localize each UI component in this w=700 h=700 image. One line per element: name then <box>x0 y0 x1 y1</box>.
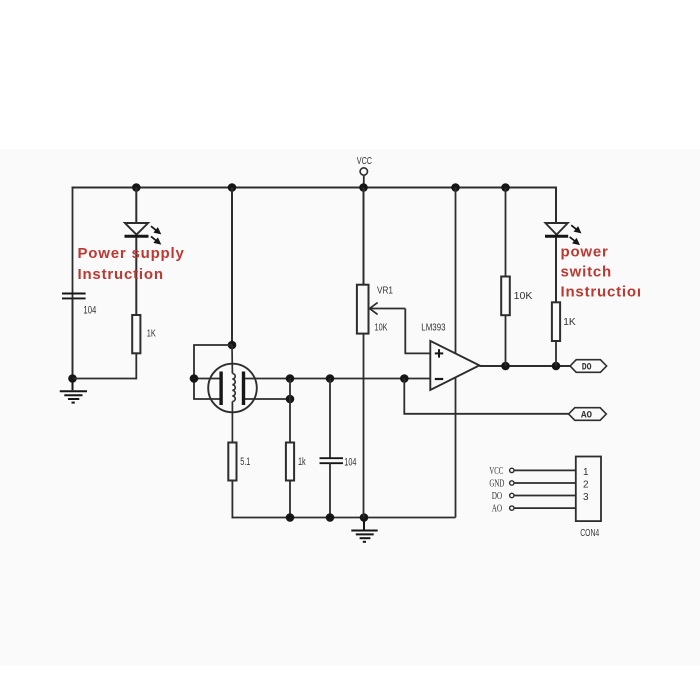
resistor 10K (pull-up) <box>501 277 510 316</box>
wire resistor to ground rail <box>135 353 137 379</box>
wire bottom ground rail <box>232 517 455 519</box>
gas sensor body circle <box>208 364 257 413</box>
svg-text:power: power <box>561 244 609 261</box>
wire VR1 bottom to ground rail <box>363 334 365 518</box>
pin VCC terminal circle <box>510 468 514 472</box>
capacitor C2 104 <box>320 458 344 463</box>
VR1 wiper arrow <box>370 303 406 315</box>
svg-text:AO: AO <box>492 504 503 515</box>
svg-text:1k: 1k <box>298 456 306 468</box>
junction ground node left <box>68 374 77 383</box>
port flag AO <box>569 408 607 422</box>
junction AO tap on minus line <box>400 374 409 383</box>
svg-text:104: 104 <box>83 305 96 317</box>
capacitor C1 104 <box>62 294 86 299</box>
wire sensor B-electrode lower tap <box>245 398 290 400</box>
svg-text:10K: 10K <box>375 323 388 334</box>
svg-text:AO: AO <box>581 410 592 422</box>
resistor 1K (LED D1 series) <box>132 315 140 353</box>
svg-text:switch: switch <box>561 264 612 281</box>
svg-text:1K: 1K <box>147 328 156 340</box>
sensor electrode plate right <box>242 372 245 406</box>
wire LED D2 cathode to resistor 1K <box>555 238 557 303</box>
pin GND terminal circle <box>510 481 514 485</box>
wire left vertical drop from bus <box>72 187 74 379</box>
wire capacitor C1 lower lead <box>72 298 74 378</box>
wire comparator output <box>479 365 570 367</box>
wire sensor B-electrode to comparator minus input <box>245 378 430 380</box>
svg-text:1K: 1K <box>563 316 576 328</box>
wire B node down to load resistor 1k <box>289 379 291 443</box>
svg-text:DO: DO <box>582 362 592 374</box>
wire ground rail left <box>73 378 137 380</box>
wire capacitor C2 to ground rail <box>329 463 331 517</box>
resistor 10K (pull-up) wire from bus <box>505 188 507 277</box>
wire bus right corner down to LED D2 <box>555 188 556 224</box>
wire wiper to comparator plus input <box>405 309 430 354</box>
sensor heater coil <box>232 374 235 402</box>
wire top VCC bus horizontal <box>72 187 556 189</box>
svg-text:Instruction: Instruction <box>78 266 164 283</box>
wire down to capacitor 104 <box>329 379 331 459</box>
wire resistor 5.1 to ground rail <box>231 481 233 519</box>
resistor 5.1 (heater) <box>228 443 236 481</box>
junction filter capacitor tap <box>326 374 335 383</box>
LED D2 <box>545 223 568 236</box>
svg-text:Power supply: Power supply <box>78 245 185 262</box>
node VCC terminal <box>360 168 367 188</box>
junction bus at sensor <box>228 183 237 192</box>
wire pin AO <box>515 507 576 509</box>
LED D1 light arrows <box>151 226 160 243</box>
junction output at LED resistor <box>552 362 561 371</box>
annotation Power supply Instruction <box>78 245 185 283</box>
svg-text:3: 3 <box>583 492 589 503</box>
wire pin VCC <box>515 469 576 471</box>
junction bus at op-amp column <box>451 183 460 192</box>
junction A-electrode loop <box>190 374 199 383</box>
svg-text:10K: 10K <box>514 290 533 302</box>
junction bus at 10K resistor <box>501 183 510 192</box>
junction B node lower <box>286 395 295 404</box>
junction sensor top node <box>228 341 237 350</box>
svg-text:5.1: 5.1 <box>240 456 250 468</box>
wire pin GND <box>515 482 576 484</box>
wire long vertical from bus to ground rail (behind op-amp) <box>455 188 457 518</box>
junction rail at ground symbol <box>360 513 369 522</box>
wire resistor 1k to ground rail <box>289 481 291 518</box>
svg-text:DO: DO <box>492 491 503 502</box>
wire sensor heater top from bus <box>231 188 233 346</box>
potentiometer VR1 wire from bus <box>363 188 365 285</box>
junction rail at 1k <box>286 513 295 522</box>
connector CON4 box <box>576 457 601 522</box>
svg-text:2: 2 <box>583 479 589 490</box>
annotation power switch Instruction (clipped) <box>561 244 647 301</box>
junction rail at capacitor <box>326 513 335 522</box>
svg-text:VR1: VR1 <box>377 286 393 297</box>
svg-text:Instruction: Instruction <box>561 284 647 301</box>
junction B node upper <box>286 374 295 383</box>
wire heater bottom lead to resistor 5.1 <box>231 402 233 443</box>
ground GND1 <box>60 379 87 403</box>
wire 10K to output node <box>505 315 507 366</box>
junction bus at LED1 <box>132 183 141 192</box>
junction bus at VR1/VCC <box>359 183 368 192</box>
port flag DO <box>570 360 607 374</box>
svg-text:104: 104 <box>344 456 356 468</box>
wire AO branch <box>404 379 568 414</box>
svg-text:LM393: LM393 <box>421 322 446 333</box>
pin DO terminal circle <box>510 493 514 497</box>
junction output at 10K <box>501 362 510 371</box>
op-amp LM393 <box>430 341 479 390</box>
LED D1 <box>125 223 149 236</box>
wire sensor A-electrode loop <box>194 345 232 399</box>
resistor 1K (LED D2 series) <box>552 302 560 341</box>
svg-text:GND: GND <box>489 479 504 490</box>
LED D2 light arrows <box>570 225 580 244</box>
wire resistor to output node <box>555 341 557 366</box>
wire heater top lead inside circle <box>231 345 233 374</box>
wire LED D1 cathode to resistor <box>135 238 137 316</box>
svg-text:1: 1 <box>583 467 589 478</box>
ground GND2 <box>351 518 377 542</box>
resistor 1k (load) <box>286 443 294 481</box>
sensor electrode plate left <box>219 372 222 406</box>
svg-text:CON4: CON4 <box>580 528 599 539</box>
pin AO terminal circle <box>510 506 514 510</box>
potentiometer VR1 body <box>357 285 369 334</box>
LED D1 anode wire <box>135 188 137 224</box>
svg-text:VCC: VCC <box>489 466 503 477</box>
wire pin DO <box>515 495 576 497</box>
svg-text:VCC: VCC <box>357 156 372 167</box>
